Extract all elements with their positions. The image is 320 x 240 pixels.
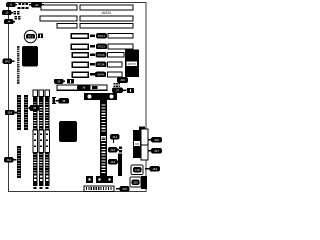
ISA slot 3 left segment — [57, 24, 77, 29]
svg-text:J16: J16 — [154, 138, 159, 142]
jumper label J3 — [2, 10, 13, 15]
PCI slot 1 label — [96, 33, 107, 38]
pin header for J2 — [19, 3, 29, 5]
voltage regulator ladder — [17, 46, 19, 84]
svg-text:ISA4: ISA4 — [97, 73, 104, 77]
mount box mid — [96, 176, 103, 183]
keyboard controller chip — [133, 130, 141, 158]
PCI slot 2 key — [90, 45, 95, 47]
tall black connector — [141, 176, 147, 189]
ISA slot 2 right segment — [80, 16, 133, 21]
label J7 — [112, 88, 127, 93]
svg-text:J18: J18 — [135, 168, 140, 172]
svg-text:J6: J6 — [82, 86, 86, 90]
svg-text:J8: J8 — [62, 99, 66, 103]
power connector top bar — [84, 93, 117, 100]
PCI slot 1 right segment — [108, 34, 133, 39]
bump above keyboard connector — [139, 127, 145, 132]
label J12 — [110, 134, 120, 143]
ISA slot 4 key — [90, 73, 95, 75]
component right of battery — [38, 34, 43, 39]
PCI slot 4 right segment — [108, 62, 123, 67]
ISA slot 2 left segment — [40, 16, 77, 21]
chipset label window — [127, 62, 138, 67]
SIMM socket 3 — [17, 146, 21, 178]
label J19 — [145, 166, 160, 171]
ISA slot 3 right segment — [80, 24, 133, 29]
PCI slot 3 right segment — [108, 53, 125, 58]
IDE/floppy header column — [100, 100, 107, 183]
svg-text:J7: J7 — [116, 88, 120, 92]
label J16 — [148, 137, 162, 142]
flash BIOS chip U3 — [59, 121, 77, 142]
label J10 under chipset — [117, 77, 128, 83]
svg-text:J2: J2 — [35, 3, 39, 7]
PCI slot 2 label — [96, 44, 107, 49]
svg-text:J14: J14 — [110, 160, 115, 164]
mount box right — [106, 176, 113, 183]
ISA slot 1 left segment — [41, 5, 77, 10]
DIMM socket 2 — [39, 90, 43, 189]
label J13 — [108, 147, 119, 152]
PCI slot 3 left segment — [72, 53, 88, 58]
svg-text:SM: SM — [7, 111, 12, 115]
mount box left — [86, 176, 93, 183]
PCI slot 3 key — [90, 54, 95, 56]
svg-text:PCI4: PCI4 — [98, 63, 105, 67]
SIMM socket 2 — [24, 95, 28, 130]
ISA slot 1 right segment — [80, 5, 133, 10]
svg-text:J3: J3 — [5, 11, 9, 15]
PCI slot 4 key — [90, 63, 95, 65]
label J8 — [56, 98, 70, 104]
label J9 on DIMM sockets — [28, 105, 39, 111]
svg-text:J20: J20 — [133, 180, 138, 184]
jumper label J1 (top-left) — [6, 2, 17, 7]
PCI slot 1 key — [90, 35, 95, 37]
DIMM socket 1 — [33, 90, 37, 189]
svg-text:PCI3: PCI3 — [98, 53, 105, 57]
svg-text:PCI2: PCI2 — [98, 45, 105, 49]
label J15 (front panel) — [116, 186, 130, 191]
component right of J7 — [127, 88, 134, 93]
svg-text:J15: J15 — [122, 187, 127, 191]
label J11 (left) — [4, 157, 17, 162]
svg-text:J13: J13 — [110, 148, 115, 152]
PCI slot 4 label — [96, 62, 107, 67]
svg-text:JP5: JP5 — [5, 59, 11, 63]
svg-text:430TX: 430TX — [127, 62, 136, 66]
svg-text:PCI1: PCI1 — [98, 34, 105, 38]
svg-text:J17: J17 — [154, 149, 159, 153]
pin header for J4 — [15, 16, 21, 19]
svg-text:J12: J12 — [112, 135, 117, 139]
label J14 — [108, 159, 119, 164]
vertical pin strip (I-beam) — [52, 97, 56, 104]
PCI slot 4 left segment — [72, 62, 88, 67]
ISA slot 1 key — [41, 4, 44, 7]
front panel header — [84, 186, 114, 192]
chipset chip U2 — [125, 50, 139, 78]
DIMM socket 3 — [45, 90, 49, 189]
outlined box with label J20 — [130, 177, 141, 187]
svg-text:J5: J5 — [57, 80, 61, 84]
ISA slot 4 left segment — [72, 72, 88, 77]
svg-text:JA034: JA034 — [101, 11, 111, 15]
part number text JA034 — [101, 11, 111, 15]
SIMM socket 1 — [17, 95, 21, 130]
outlined box with label J18 — [131, 165, 143, 175]
pin block near J7 — [114, 79, 121, 87]
jumper label J2 — [29, 2, 42, 8]
svg-text:J9: J9 — [33, 106, 37, 110]
label J5 — [54, 79, 65, 84]
pin header for J1 — [18, 7, 29, 9]
pins right of J13 — [119, 147, 122, 153]
PCI slot 1 left segment — [71, 34, 88, 39]
ISA slot 4 label — [95, 72, 106, 77]
svg-text:J4: J4 — [7, 20, 11, 24]
svg-text:J19: J19 — [152, 167, 157, 171]
long connector with label J6 — [57, 85, 107, 90]
stacked connector (PS/2) — [141, 129, 148, 160]
label JP5 (left edge) — [3, 59, 15, 64]
ISA slot 4 right segment — [108, 72, 123, 77]
svg-text:J10: J10 — [120, 78, 125, 82]
jumper block right of J5 — [67, 79, 74, 84]
pin header for J3 — [14, 11, 20, 14]
svg-text:BT1: BT1 — [28, 35, 34, 39]
svg-text:KB: KB — [135, 142, 139, 146]
label J17 — [148, 148, 162, 153]
PCI slot 3 label — [96, 52, 107, 57]
svg-text:J11: J11 — [6, 158, 11, 162]
svg-text:J1: J1 — [9, 3, 13, 7]
PCI slot 2 right segment — [108, 44, 133, 49]
label SIMM (left) — [5, 110, 17, 115]
battery circle BT1 — [24, 30, 36, 42]
jumper label J4 — [4, 19, 15, 24]
PCI slot 2 left segment — [71, 44, 88, 49]
vertical bar connector — [118, 154, 122, 177]
CPU chip U1 — [22, 46, 38, 67]
motherboard outline — [9, 3, 147, 192]
